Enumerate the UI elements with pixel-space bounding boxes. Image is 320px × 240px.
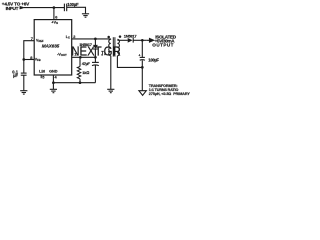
ground input side [82,14,89,17]
ground VFB side [20,91,27,94]
node VREF/VFB junction [22,58,25,61]
wire primary bottom to ground [110,56,112,89]
svg-text:275µH, <0.5Ω PRIMARY: 275µH, <0.5Ω PRIMARY [149,92,191,96]
node secondary phase dot [119,35,122,38]
node resistor bottom junction [79,81,82,84]
wire input rail [24,7,64,9]
ground isolated triangle [139,91,146,96]
diode D2 [128,38,134,43]
capacitor C2 0.1uF plates [21,72,27,74]
wire +VS supply drop [53,8,55,20]
node secondary return junction [141,66,144,69]
capacitor C1 100uF plates [63,4,65,12]
wire C2 to ground [23,75,25,90]
node input/+VS junction [53,6,56,9]
svg-text:GND: GND [49,69,58,73]
wire -VOUT [72,56,96,58]
wire secondary bottom return [117,56,142,68]
pin 4 stub [52,75,54,83]
transformer T1 primary winding [109,39,111,56]
capacitor C3 47uF [92,57,99,82]
wire VREF to left rail [24,41,34,60]
wire diode to output node [133,39,146,41]
wire bottom return [53,82,95,84]
svg-text:VREF: VREF [36,39,44,44]
svg-text:µF: µF [13,73,18,78]
svg-text:47µF: 47µF [82,61,91,66]
wire GND stem [52,83,54,89]
ground IC side [50,89,57,92]
svg-text:1kΩ: 1kΩ [82,70,89,75]
svg-text:LX: LX [66,35,70,40]
svg-text:OUTPUT: OUTPUT [152,42,174,47]
wire LX to transformer [72,38,111,40]
input arrow [20,6,25,9]
wire rail to C2 [23,60,25,73]
node GND junction [52,81,55,84]
svg-text:1N5817: 1N5817 [124,33,138,38]
wire secondary top to diode [117,39,127,41]
svg-text:-VOUT: -VOUT [57,53,67,58]
pin 5 stub [40,75,42,78]
svg-text:1N5817: 1N5817 [79,42,93,47]
svg-text:MAX635: MAX635 [42,44,60,49]
wire output node down [141,40,143,57]
svg-text:INPUT: INPUT [6,6,19,11]
svg-text:VFB: VFB [35,58,41,63]
wire VFB [24,59,34,61]
node output junction [141,39,144,42]
transformer T1 secondary winding [117,39,119,55]
wire cap to ground [67,7,86,13]
svg-text:100µF: 100µF [67,2,79,7]
svg-text:T1: T1 [101,50,106,56]
svg-text:LBI: LBI [39,69,45,73]
op-amp U1 MAX635 box [34,20,71,75]
node primary phase dot [107,36,110,39]
node LX/diode junction [94,38,97,41]
diode D1 vertical [93,39,98,57]
node diode/cap junction [94,56,97,59]
svg-text:100µF: 100µF [148,58,159,63]
ground transformer primary [107,89,114,92]
svg-text:+VS: +VS [51,19,58,25]
capacitor C4 100uF [140,57,145,90]
node resistor junction [79,56,82,59]
resistor R1 1k [77,57,81,82]
transformer core [112,37,114,56]
output arrow [146,39,154,43]
